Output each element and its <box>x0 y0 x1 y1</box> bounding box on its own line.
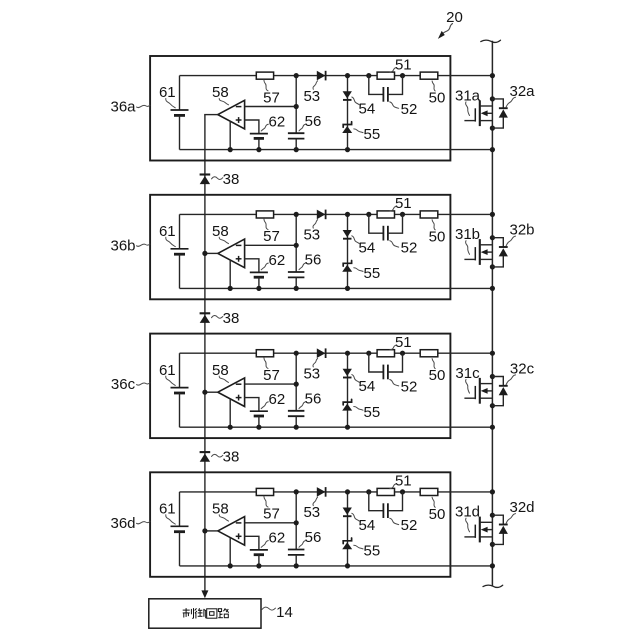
wire: inverting input of op-amp 58 of block 36c <box>245 383 297 385</box>
resistor 51 of block 36c <box>377 350 394 357</box>
wire: diode 54/55 chain of block 36c <box>347 353 349 427</box>
wire: non-inverting input of op-amp 58 to capacitor 62 of block 36a <box>245 120 259 134</box>
svg-text:58: 58 <box>212 362 229 379</box>
junction dot: inverting input node of block 36b <box>294 243 299 248</box>
wire: diode 54/55 chain of block 36d <box>347 492 349 566</box>
label 58 of block 36d <box>212 501 229 522</box>
junction dot: switch branch bottom 36d <box>490 542 495 547</box>
svg-text:61: 61 <box>159 501 176 518</box>
junction dot: inverting input node of block 36c <box>294 382 299 387</box>
label 14 <box>262 604 293 621</box>
junction dot: inverting input node of block 36d <box>294 520 299 525</box>
label 31b <box>455 226 480 254</box>
label 32b <box>506 222 534 246</box>
battery cell 61 of block 36b <box>171 214 189 288</box>
junction dot: top node of block 36a <box>294 73 299 78</box>
svg-text:52: 52 <box>401 378 418 395</box>
wire: top rail of block 36a (battery to rail) <box>180 75 493 77</box>
label 31a <box>455 87 481 115</box>
wire: bottom rail of block 36b (battery to rail) <box>180 287 493 289</box>
diode 32a <box>499 108 508 117</box>
label 32a <box>506 83 535 107</box>
label 61 of block 36c <box>159 362 176 386</box>
resistor 50 of block 36b <box>420 211 438 218</box>
battery cell 61 of block 36c <box>171 353 189 427</box>
label 31c <box>455 365 480 393</box>
svg-text:58: 58 <box>212 84 229 101</box>
diode 32c branch wire <box>492 377 503 406</box>
label 56 of block 36c <box>299 391 321 409</box>
svg-text:55: 55 <box>364 543 381 560</box>
svg-text:50: 50 <box>429 506 446 523</box>
op-amp 58 of block 36a <box>218 100 245 129</box>
transistor 31c (MOSFET) <box>464 378 492 404</box>
label 52 of block 36c <box>390 378 418 395</box>
label 32d <box>506 499 534 523</box>
label 62 of block 36d <box>261 530 285 548</box>
zener diode 55 of block 36c <box>342 399 352 410</box>
junction dot: ground leg on bottom rail 36a <box>228 147 233 152</box>
label 61 of block 36a <box>159 84 176 108</box>
junction dot: block top wire on rail 36b <box>490 212 495 217</box>
junction dot: output bus joins op-amp output 36d <box>202 528 207 533</box>
label 51 of block 36d <box>390 473 412 490</box>
junction dot: ground leg on bottom rail 36c <box>228 425 233 430</box>
wire: node 57/53 vertical to capacitor 56 of block 36a <box>295 76 297 134</box>
junction dot: capacitor 56 on bottom rail 36c <box>294 425 299 430</box>
label 55 of block 36d <box>354 543 380 560</box>
junction dot: block bottom wire on rail 36c <box>490 425 495 430</box>
svg-text:32c: 32c <box>510 361 535 378</box>
battery cell 61 of block 36a <box>171 76 189 150</box>
wire: op-amp ground leg of block 36b <box>229 260 231 288</box>
wire: node 57/53 vertical to capacitor 56 of block 36c <box>295 353 297 411</box>
svg-text:61: 61 <box>159 223 176 240</box>
svg-text:50: 50 <box>429 90 446 107</box>
svg-text:62: 62 <box>269 530 286 547</box>
label 57 of block 36c <box>263 358 280 384</box>
junction dot: top node of block 36d <box>294 489 299 494</box>
monitoring block 36b outline <box>150 195 450 299</box>
svg-text:54: 54 <box>359 517 376 534</box>
svg-text:58: 58 <box>212 223 229 240</box>
junction dot: block top wire on rail 36d <box>490 489 495 494</box>
capacitor 56 of block 36a <box>288 133 305 149</box>
resistor 51 of block 36a <box>377 72 394 79</box>
junction dot: block top wire on rail 36a <box>490 73 495 78</box>
junction dot: top node of block 36c <box>294 351 299 356</box>
svg-text:55: 55 <box>364 265 381 282</box>
svg-text:62: 62 <box>269 391 286 408</box>
label 32c <box>506 361 534 385</box>
diode 38 (instance 1) <box>200 175 211 185</box>
junction dot: switch branch bottom 36c <box>490 403 495 408</box>
label 61 of block 36b <box>159 223 176 247</box>
svg-text:20: 20 <box>446 9 463 26</box>
junction dot: switch branch bottom 36a <box>490 126 495 131</box>
svg-text:57: 57 <box>263 367 280 384</box>
svg-text:53: 53 <box>303 88 320 105</box>
right battery-string rail wire <box>491 41 493 587</box>
junction dot: diode chain top of block 36a <box>345 73 350 78</box>
svg-text:51: 51 <box>395 473 412 490</box>
resistor 50 of block 36d <box>420 488 438 495</box>
svg-text:52: 52 <box>401 517 418 534</box>
junction dot: switch branch top 36a <box>490 96 495 101</box>
resistor 50 of block 36c <box>420 350 438 357</box>
label 56 of block 36d <box>299 529 321 547</box>
control circuit box 14 <box>149 599 261 628</box>
wire: top rail of block 36d (battery to rail) <box>180 491 493 493</box>
transistor 31d (MOSFET) <box>464 517 492 543</box>
svg-text:38: 38 <box>223 449 240 466</box>
junction dot: capacitor 62 on bottom rail 36c <box>256 425 261 430</box>
label 54 of block 36d <box>352 513 375 534</box>
diode 32b branch wire <box>492 238 503 267</box>
svg-text:32a: 32a <box>509 83 535 100</box>
svg-text:61: 61 <box>159 84 176 101</box>
junction dot: output bus joins op-amp output 36c <box>202 390 207 395</box>
label 38 (instance 1) <box>212 171 240 188</box>
junction dot: diode chain top of block 36d <box>345 489 350 494</box>
label 52 of block 36a <box>390 101 418 118</box>
junction dot: diode chain top of block 36b <box>345 212 350 217</box>
capacitor 62 of block 36a <box>250 134 268 150</box>
wire: op-amp ground leg of block 36c <box>229 399 231 427</box>
svg-text:55: 55 <box>364 404 381 421</box>
diode 32c <box>499 386 508 395</box>
junction dot: block bottom wire on rail 36b <box>490 286 495 291</box>
svg-text:36c: 36c <box>111 376 136 393</box>
junction dot: switch branch bottom 36b <box>490 264 495 269</box>
label 53 of block 36c <box>303 358 320 382</box>
resistor 57 of block 36c <box>256 350 273 357</box>
diode 53 of block 36d <box>317 487 326 497</box>
diode 54 of block 36b <box>343 230 352 239</box>
junction dot: inverting input node of block 36a <box>294 104 299 109</box>
control circuit text <box>183 608 229 618</box>
resistor 57 of block 36a <box>256 72 273 79</box>
label 36c <box>111 376 150 393</box>
diode 32d branch wire <box>492 515 503 544</box>
label 31d <box>455 504 480 532</box>
diode 38 (instance 3) <box>200 452 211 462</box>
svg-text:56: 56 <box>305 113 322 130</box>
wire: node 57/53 vertical to capacitor 56 of block 36b <box>295 214 297 272</box>
wire: non-inverting input of op-amp 58 to capacitor 62 of block 36d <box>245 536 259 550</box>
junction dot: diode chain bottom of block 36d <box>345 563 350 568</box>
label 36a <box>110 99 149 116</box>
junction dot: R51 left node of block 36c <box>366 351 371 356</box>
svg-text:38: 38 <box>223 171 240 188</box>
junction dot: top node of block 36b <box>294 212 299 217</box>
svg-text:56: 56 <box>305 391 322 408</box>
diode 54 of block 36c <box>343 369 352 378</box>
wire: bottom rail of block 36d (battery to rail) <box>180 565 493 567</box>
svg-text:50: 50 <box>429 367 446 384</box>
label 51 of block 36a <box>390 56 412 73</box>
resistor 51 of block 36d <box>377 488 394 495</box>
svg-text:58: 58 <box>212 501 229 518</box>
svg-text:31b: 31b <box>455 226 480 243</box>
diode 32a branch wire <box>492 99 503 128</box>
label 53 of block 36a <box>303 81 320 105</box>
leader arrow for label 20 <box>442 24 453 35</box>
rail top break symbol <box>481 40 501 42</box>
label 38 (instance 2) <box>212 310 240 327</box>
label 58 of block 36c <box>212 362 229 383</box>
arrowhead into control circuit <box>201 590 208 598</box>
svg-text:54: 54 <box>359 101 376 118</box>
monitoring block 36d outline <box>150 472 450 577</box>
label 53 of block 36d <box>303 497 320 521</box>
junction dot: ground leg on bottom rail 36b <box>228 286 233 291</box>
junction dot: capacitor 56 on bottom rail 36b <box>294 286 299 291</box>
label 57 of block 36b <box>263 219 280 245</box>
svg-text:32d: 32d <box>509 499 534 516</box>
svg-text:53: 53 <box>303 227 320 244</box>
wire: inverting input of op-amp 58 of block 36d <box>245 522 297 524</box>
svg-text:62: 62 <box>269 252 286 269</box>
capacitor 56 of block 36b <box>288 272 305 288</box>
junction dot: diode chain bottom of block 36a <box>345 147 350 152</box>
label 61 of block 36d <box>159 501 176 525</box>
label 50 of block 36a <box>429 81 446 107</box>
zener diode 55 of block 36a <box>342 122 352 133</box>
junction dot: R51 left node of block 36d <box>366 489 371 494</box>
wire: diode 54/55 chain of block 36b <box>347 214 349 288</box>
junction dot: switch branch top 36b <box>490 235 495 240</box>
label 55 of block 36b <box>354 265 380 282</box>
svg-text:31d: 31d <box>455 504 480 521</box>
svg-text:36a: 36a <box>110 99 136 116</box>
svg-text:57: 57 <box>263 506 280 523</box>
svg-text:52: 52 <box>401 101 418 118</box>
svg-text:51: 51 <box>395 334 412 351</box>
svg-text:51: 51 <box>395 56 412 73</box>
junction dot: R51 right node of block 36c <box>400 351 405 356</box>
resistor 57 of block 36d <box>256 488 273 495</box>
label 62 of block 36c <box>261 391 285 409</box>
label 50 of block 36d <box>429 497 446 523</box>
svg-text:31a: 31a <box>455 87 481 104</box>
svg-text:57: 57 <box>263 89 280 106</box>
diode 54 of block 36a <box>343 91 352 100</box>
junction dot: capacitor 56 on bottom rail 36a <box>294 147 299 152</box>
capacitor 62 of block 36b <box>250 272 268 288</box>
capacitor 52 loop of block 36b <box>369 214 403 240</box>
junction dot: R51 right node of block 36d <box>400 489 405 494</box>
junction dot: switch branch top 36d <box>490 513 495 518</box>
label 36d <box>110 515 149 532</box>
capacitor 56 of block 36d <box>288 550 305 566</box>
wire: non-inverting input of op-amp 58 to capacitor 62 of block 36c <box>245 398 259 412</box>
junction dot: diode chain top of block 36c <box>345 351 350 356</box>
svg-text:54: 54 <box>359 239 376 256</box>
label 56 of block 36a <box>299 113 321 131</box>
wire: op-amp output to bus of block 36d <box>204 530 218 532</box>
capacitor 62 of block 36c <box>250 411 268 427</box>
junction dot: block bottom wire on rail 36d <box>490 563 495 568</box>
svg-text:14: 14 <box>276 604 293 621</box>
zener diode 55 of block 36d <box>342 538 352 549</box>
svg-text:51: 51 <box>395 195 412 212</box>
label 58 of block 36b <box>212 223 229 244</box>
junction dot: ground leg on bottom rail 36d <box>228 563 233 568</box>
wire: op-amp ground leg of block 36a <box>229 121 231 149</box>
junction dot: capacitor 62 on bottom rail 36d <box>256 563 261 568</box>
svg-text:52: 52 <box>401 240 418 257</box>
junction dot: capacitor 56 on bottom rail 36d <box>294 563 299 568</box>
diode 53 of block 36c <box>317 348 326 358</box>
junction dot: switch branch top 36c <box>490 374 495 379</box>
wire: diode 54/55 chain of block 36a <box>347 76 349 150</box>
label 57 of block 36d <box>263 496 280 522</box>
svg-text:36b: 36b <box>110 237 135 254</box>
wire: top rail of block 36b (battery to rail) <box>180 213 493 215</box>
svg-text:61: 61 <box>159 362 176 379</box>
capacitor 56 of block 36c <box>288 411 305 427</box>
capacitor 52 loop of block 36d <box>369 492 403 518</box>
label 53 of block 36b <box>303 220 320 244</box>
zener diode 55 of block 36b <box>342 261 352 272</box>
wire: top rail of block 36c (battery to rail) <box>180 352 493 354</box>
resistor 50 of block 36a <box>420 72 438 79</box>
label 57 of block 36a <box>263 80 280 106</box>
svg-text:50: 50 <box>429 228 446 245</box>
resistor 51 of block 36b <box>377 211 394 218</box>
label 36b <box>110 237 149 254</box>
svg-text:36d: 36d <box>110 515 135 532</box>
junction dot: R51 right node of block 36a <box>400 73 405 78</box>
wire: op-amp output to bus of block 36a <box>204 114 218 116</box>
label 52 of block 36b <box>390 240 418 257</box>
transistor 31a (MOSFET) <box>464 100 492 126</box>
junction dot: diode chain bottom of block 36b <box>345 286 350 291</box>
rail bottom break symbol <box>483 585 503 587</box>
junction dot: R51 right node of block 36b <box>400 212 405 217</box>
label 50 of block 36b <box>429 220 446 246</box>
diode 54 of block 36d <box>343 508 352 517</box>
svg-text:53: 53 <box>303 366 320 383</box>
wire: node 57/53 vertical to capacitor 56 of block 36d <box>295 492 297 550</box>
monitoring block 36c outline <box>150 334 450 439</box>
svg-text:53: 53 <box>303 504 320 521</box>
diode 32b <box>499 247 508 256</box>
junction dot: block top wire on rail 36c <box>490 351 495 356</box>
label 55 of block 36a <box>354 126 380 143</box>
svg-text:38: 38 <box>223 310 240 327</box>
label 55 of block 36c <box>354 404 380 421</box>
svg-text:32b: 32b <box>509 222 534 239</box>
resistor 57 of block 36b <box>256 211 273 218</box>
battery cell 61 of block 36d <box>171 492 189 566</box>
label 62 of block 36a <box>261 113 285 131</box>
capacitor 52 loop of block 36a <box>369 76 403 102</box>
transistor 31b (MOSFET) <box>464 239 492 265</box>
diode 53 of block 36b <box>317 210 326 220</box>
monitoring block 36a outline <box>150 56 450 161</box>
svg-text:54: 54 <box>359 378 376 395</box>
svg-text:56: 56 <box>305 529 322 546</box>
capacitor 62 of block 36d <box>250 550 268 566</box>
label 50 of block 36c <box>429 359 446 385</box>
wire: bottom rail of block 36a (battery to rail) <box>180 149 493 151</box>
diode 32d <box>499 525 508 534</box>
capacitor 52 loop of block 36c <box>369 353 403 379</box>
label 38 (instance 3) <box>212 449 240 466</box>
wire: op-amp output to bus of block 36c <box>204 391 218 393</box>
label 51 of block 36b <box>390 195 412 212</box>
label 58 of block 36a <box>212 84 229 105</box>
label 54 of block 36c <box>352 375 375 396</box>
wire: bottom rail of block 36c (battery to rail) <box>180 426 493 428</box>
label 52 of block 36d <box>390 517 418 534</box>
junction dot: R51 left node of block 36a <box>366 73 371 78</box>
junction dot: R51 left node of block 36b <box>366 212 371 217</box>
svg-text:57: 57 <box>263 228 280 245</box>
label 54 of block 36b <box>352 236 375 256</box>
junction dot: capacitor 62 on bottom rail 36a <box>256 147 261 152</box>
junction dot: block bottom wire on rail 36a <box>490 147 495 152</box>
wire: op-amp output to bus of block 36b <box>204 252 218 254</box>
op-amp 58 of block 36c <box>218 378 245 407</box>
diode 53 of block 36a <box>317 71 326 81</box>
op-amp 58 of block 36b <box>218 239 245 268</box>
svg-text:31c: 31c <box>455 365 480 382</box>
svg-text:55: 55 <box>364 126 381 143</box>
junction dot: output bus joins op-amp output 36b <box>202 251 207 256</box>
label 51 of block 36c <box>390 334 412 351</box>
wire: inverting input of op-amp 58 of block 36a <box>245 106 297 108</box>
label 54 of block 36a <box>352 97 375 118</box>
junction dot: diode chain bottom of block 36c <box>345 425 350 430</box>
wire: op-amp ground leg of block 36d <box>229 538 231 566</box>
node: op-amp output bus wire down to control circuit <box>204 115 206 591</box>
label 56 of block 36b <box>299 252 321 270</box>
wire: inverting input of op-amp 58 of block 36b <box>245 244 297 246</box>
diode 38 (instance 2) <box>200 313 211 323</box>
label 62 of block 36b <box>261 252 285 270</box>
wire: non-inverting input of op-amp 58 to capacitor 62 of block 36b <box>245 259 259 273</box>
junction dot: capacitor 62 on bottom rail 36b <box>256 286 261 291</box>
svg-text:56: 56 <box>305 252 322 269</box>
svg-text:62: 62 <box>269 113 286 130</box>
op-amp 58 of block 36d <box>218 517 245 546</box>
